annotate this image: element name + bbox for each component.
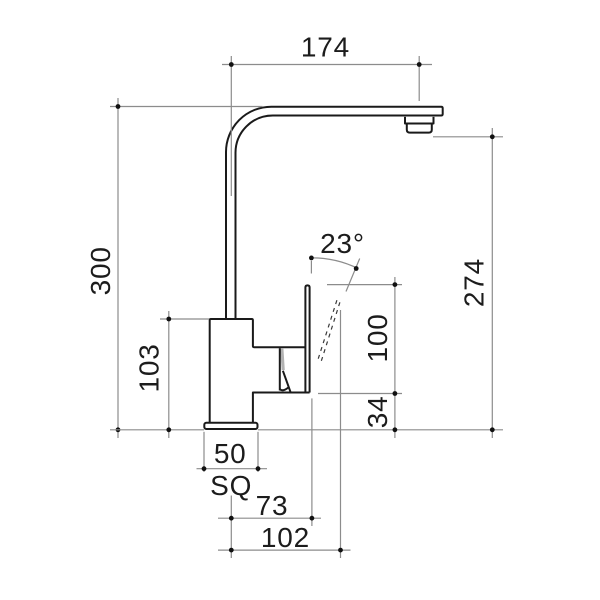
svg-text:300: 300 [85, 246, 116, 295]
dim 174 extension right (aerator centre) [418, 56, 420, 101]
svg-text:100: 100 [362, 313, 393, 362]
dim 50 extension right [257, 432, 259, 472]
dim 103 dot top [166, 317, 171, 322]
svg-text:274: 274 [459, 258, 490, 307]
angle 23 dot left [309, 256, 314, 261]
angle 23 arc [311, 258, 358, 268]
cartridge edge line [279, 348, 281, 390]
dim 174 line [222, 64, 432, 66]
dim 274 dot top [490, 134, 495, 139]
dim 100 extension top (handle top) [327, 284, 402, 286]
svg-text:174: 174 [301, 32, 350, 63]
dim 100/34 dot middle [393, 391, 398, 396]
dim 50 dot right [256, 466, 261, 471]
mixer body outline [210, 319, 310, 423]
dim 274 dot bottom [490, 427, 495, 432]
bench line (gray baseline) left part [110, 429, 204, 431]
dim 100 dot top [393, 282, 398, 287]
svg-text:102: 102 [261, 522, 310, 553]
dim 274 extension top (aerator bottom) [433, 136, 503, 138]
dim 174 extension left (pipe centre) [230, 56, 232, 196]
svg-text:34: 34 [362, 396, 393, 429]
dim 300 dot top [116, 104, 121, 109]
svg-text:23°: 23° [320, 228, 365, 259]
base plate [204, 423, 257, 429]
cartridge diagonal [283, 371, 291, 393]
dim 174 dot right [417, 62, 422, 67]
dim 102 dot left [229, 548, 234, 553]
dim 102 dot right [338, 548, 343, 553]
cartridge gray face line [282, 348, 283, 370]
cartridge base arc [280, 387, 289, 390]
dashed handle (rotated 23 deg) line 1 [317, 300, 337, 362]
dim 34 dot bottom [393, 427, 398, 432]
dim 73/102 centre connector [230, 496, 232, 559]
dim 103 extension top (body top) [160, 318, 209, 320]
angle 23 diagonal through right dot [346, 259, 360, 292]
handle lever (solid, upright position) [305, 285, 309, 392]
dashed handle (rotated 23 deg) line 2 [320, 302, 340, 365]
dim 50 line [197, 468, 268, 470]
dim 102 extension right (dashed handle tip) [340, 310, 342, 558]
dim 34 extension top (handle bottom) [318, 393, 402, 395]
dim 73 line [218, 517, 321, 519]
dim 73 dot left [229, 516, 234, 521]
faucet spout and riser pipe outline [226, 107, 443, 319]
dim 174 dot left [229, 62, 234, 67]
svg-text:103: 103 [134, 343, 165, 392]
dim 73 extension right (handle edge) [311, 398, 313, 526]
dim 300 line [117, 98, 119, 438]
dim 103 dot bottom [166, 427, 171, 432]
dim 50 extension left [203, 432, 205, 472]
aerator outlet step 1 [405, 117, 434, 124]
angle 23 dot right [354, 266, 359, 271]
dim 274 line [491, 128, 493, 438]
aerator outlet step 2 [407, 124, 432, 133]
bench line (gray baseline) right part [258, 429, 503, 431]
dim 100/34 line [394, 277, 396, 438]
svg-text:50: 50 [214, 438, 247, 469]
svg-text:73: 73 [256, 490, 289, 521]
dim 103 line [168, 311, 170, 438]
dim 300 extension top (spout top) [110, 106, 263, 108]
dim 73 dot right [310, 516, 315, 521]
dim 102 line [218, 549, 351, 551]
dim 50 dot left [202, 466, 207, 471]
dim 300 dot bottom [116, 427, 121, 432]
angle 23 stub below left dot [310, 261, 312, 274]
